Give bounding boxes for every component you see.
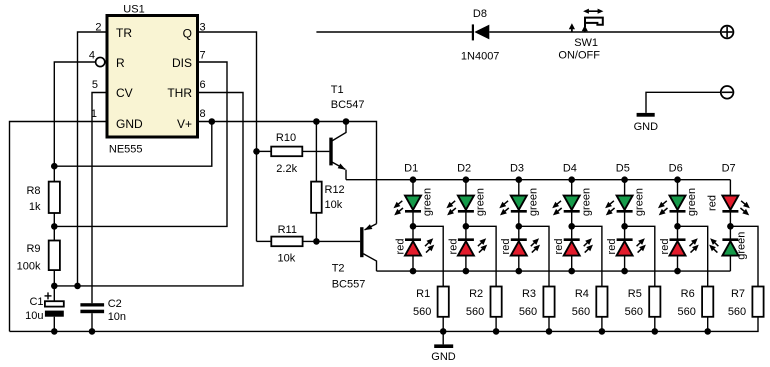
- wire rail to D5 top LED: [624, 180, 626, 196]
- svg-text:2.2k: 2.2k: [276, 163, 297, 175]
- svg-text:560: 560: [678, 306, 696, 318]
- LED D4 bottom red triangle: [564, 241, 580, 255]
- resistor R8 body: [49, 182, 60, 213]
- svg-text:R12: R12: [325, 184, 345, 196]
- wire pin1 GND left and down to ground rail: [10, 122, 108, 332]
- LED D4 top cathode bar: [564, 210, 580, 213]
- LED D6 bottom cathode bar: [670, 238, 686, 241]
- wire D3 top LED to middle node: [518, 211, 520, 239]
- svg-text:T1: T1: [331, 84, 344, 96]
- LED D5 bottom red triangle: [617, 241, 633, 255]
- wire rail to D4 top LED: [571, 180, 573, 196]
- capacitor C2 top plate: [80, 303, 104, 306]
- LED D5 top green triangle: [617, 196, 633, 210]
- wire D1 bottom LED to red rail: [412, 256, 414, 272]
- LED D1 top cathode bar: [405, 210, 421, 213]
- svg-text:R6: R6: [681, 288, 695, 300]
- LED D7 top red triangle: [722, 196, 738, 210]
- svg-text:1k: 1k: [29, 201, 41, 213]
- wire pin5 CV left and down to C2: [92, 93, 107, 304]
- svg-text:green: green: [633, 188, 645, 216]
- wire D3 middle node to resistor R3: [519, 226, 549, 286]
- svg-text:red: red: [394, 239, 406, 255]
- wire R9 to C1: [53, 270, 55, 301]
- resistor R2 body: [491, 287, 502, 317]
- wire D6 bottom LED to red rail: [677, 256, 679, 272]
- svg-text:US1: US1: [123, 3, 144, 15]
- wire rail to D2 top LED: [465, 180, 467, 196]
- wire V+ branch down-left to R8 top: [54, 122, 212, 167]
- wire D5 bottom LED to red rail: [624, 256, 626, 272]
- LED D3 bottom cathode bar: [511, 238, 527, 241]
- wire D6 middle node to resistor R6: [678, 226, 708, 286]
- resistor R1 body: [438, 287, 449, 317]
- svg-text:T2: T2: [332, 263, 345, 275]
- emission arrows D5 bottom LED: [635, 236, 647, 248]
- capacitor C1 bottom plate: [45, 311, 64, 317]
- resistor R4 body: [596, 287, 607, 317]
- LED D7 bottom green triangle: [722, 241, 738, 255]
- svg-text:green: green: [686, 188, 698, 216]
- resistor R10 body: [271, 147, 302, 157]
- diode D8 wire from V+ corner: [316, 31, 473, 33]
- ground symbol bottom GND bar: [434, 344, 453, 348]
- LED D6 top cathode bar: [670, 210, 686, 213]
- wire R10 to T1 base: [302, 150, 329, 152]
- svg-text:green: green: [422, 188, 434, 216]
- wire D5 middle node to resistor R5: [625, 226, 655, 286]
- emission arrows D2 top LED: [445, 199, 458, 211]
- svg-text:6: 6: [200, 79, 206, 91]
- wire pin4 R left and down to V+ node: [54, 62, 95, 166]
- wire ground-rail tap to GND symbol: [442, 331, 444, 344]
- capacitor C1 plus sign: [45, 295, 52, 297]
- svg-text:10n: 10n: [108, 311, 126, 323]
- ground symbol right GND bar: [637, 113, 655, 117]
- plus supply terminal: [721, 26, 734, 39]
- emission arrows D1 top LED: [392, 199, 405, 211]
- svg-text:green: green: [736, 232, 748, 260]
- wire R12 to base node of T2: [315, 213, 317, 242]
- svg-text:R: R: [116, 56, 125, 70]
- resistor R3 body: [543, 287, 554, 317]
- wire D7 bottom LED to red rail: [729, 256, 731, 272]
- resistor R11 body: [271, 237, 302, 247]
- LED D2 top green triangle: [458, 196, 474, 210]
- emission arrows D2 bottom LED: [476, 236, 488, 248]
- transistor T1 BC547 base bar: [329, 138, 332, 166]
- LED D6 bottom red triangle: [670, 241, 686, 255]
- svg-text:green: green: [528, 188, 540, 216]
- wire pin3 Q right and down to R10/R11: [198, 32, 257, 241]
- capacitor C1 polarized top plate: [45, 301, 64, 306]
- wire pin8 V+ rail to T2 emitter: [198, 122, 377, 224]
- red anode rail from T2 collector: [377, 270, 731, 272]
- wire R6 to ground rail: [707, 317, 709, 332]
- svg-text:V+: V+: [177, 117, 192, 131]
- svg-text:GND: GND: [116, 117, 143, 131]
- wire C2 to ground rail: [91, 313, 93, 331]
- wire pin6 THR right, down and left to R9/C1 node: [54, 93, 243, 286]
- wire D3 bottom LED to red rail: [518, 256, 520, 272]
- emission arrows D4 bottom LED: [582, 236, 594, 248]
- resistor R7 body: [752, 287, 763, 317]
- minus supply terminal: [721, 86, 734, 99]
- emission arrows D7 bottom LED: [708, 236, 720, 248]
- svg-text:Q: Q: [183, 26, 192, 40]
- svg-text:R4: R4: [575, 288, 589, 300]
- LED D5 top cathode bar: [617, 210, 633, 213]
- wire D7 top LED to middle node: [729, 211, 731, 239]
- svg-text:R2: R2: [469, 288, 483, 300]
- svg-text:R8: R8: [26, 185, 40, 197]
- LED D3 top cathode bar: [511, 210, 527, 213]
- resistor R9 body: [49, 241, 60, 271]
- svg-text:560: 560: [728, 306, 746, 318]
- svg-text:R1: R1: [416, 288, 430, 300]
- switch SW1 right contact arrow: [584, 30, 586, 33]
- svg-text:5: 5: [92, 79, 98, 91]
- svg-text:560: 560: [466, 306, 484, 318]
- wire rail to D6 top LED: [677, 180, 679, 196]
- LED D1 bottom cathode bar: [405, 238, 421, 241]
- emission arrows D7 top LED: [739, 199, 752, 211]
- svg-text:THR: THR: [167, 86, 192, 100]
- wire rail to D7 top LED: [729, 180, 731, 196]
- wire D5 top LED to middle node: [624, 211, 626, 239]
- svg-text:TR: TR: [116, 26, 132, 40]
- svg-text:10k: 10k: [325, 199, 343, 211]
- emission arrows D3 bottom LED: [529, 236, 541, 248]
- transistor T2 emitter lead with arrow to bar: [365, 224, 377, 230]
- svg-text:GND: GND: [634, 121, 659, 133]
- green anode rail from T1 emitter: [346, 179, 730, 181]
- wire D7 middle node to resistor R7: [730, 226, 758, 286]
- wire D2 bottom LED to red rail: [465, 256, 467, 272]
- wire D2 top LED to middle node: [465, 211, 467, 239]
- svg-text:560: 560: [413, 306, 431, 318]
- switch SW1 slider bracket: [585, 18, 603, 27]
- LED D2 bottom cathode bar: [458, 238, 474, 241]
- wire R4 to ground rail: [601, 317, 603, 332]
- ground rail along bottom: [10, 317, 759, 332]
- emission arrows D3 top LED: [497, 199, 510, 211]
- transistor T1 emitter lead with arrow: [331, 162, 345, 170]
- wire D1 top LED to middle node: [412, 211, 414, 239]
- svg-text:GND: GND: [431, 351, 456, 363]
- svg-text:10u: 10u: [25, 310, 43, 322]
- svg-text:green: green: [475, 188, 487, 216]
- switch SW1 slide actuator double arrow: [583, 9, 603, 14]
- resistor R6 body: [702, 287, 713, 317]
- wire rail to D1 top LED: [412, 180, 414, 196]
- svg-text:red: red: [659, 239, 671, 255]
- LED D7 top cathode bar: [722, 210, 738, 213]
- LED D6 top green triangle: [670, 196, 686, 210]
- svg-text:R10: R10: [276, 132, 296, 144]
- wire D1 middle node to resistor R1: [413, 226, 443, 286]
- svg-text:C1: C1: [29, 296, 43, 308]
- svg-text:560: 560: [625, 306, 643, 318]
- wire V+ to R12: [315, 122, 317, 182]
- wire R1 to ground rail: [442, 317, 444, 332]
- svg-text:red: red: [707, 195, 719, 211]
- svg-text:DIS: DIS: [172, 56, 192, 70]
- svg-text:D6: D6: [669, 162, 683, 174]
- transistor T2 BC557 base bar: [360, 227, 363, 257]
- svg-text:red: red: [500, 239, 512, 255]
- svg-text:D2: D2: [457, 162, 471, 174]
- svg-text:R9: R9: [26, 243, 40, 255]
- LED D3 top green triangle: [511, 196, 527, 210]
- wire R2 to ground rail: [495, 317, 497, 332]
- wire D4 bottom LED to red rail: [571, 256, 573, 272]
- svg-text:R7: R7: [731, 288, 745, 300]
- svg-text:red: red: [606, 239, 618, 255]
- svg-text:560: 560: [572, 306, 590, 318]
- wire R5 to ground rail: [654, 317, 656, 332]
- LED D4 bottom cathode bar: [564, 238, 580, 241]
- LED D4 top green triangle: [564, 196, 580, 210]
- LED D7 bottom cathode bar: [722, 238, 738, 241]
- diode D8 1N4007 symbol: [472, 24, 474, 40]
- wire D4 top LED to middle node: [571, 211, 573, 239]
- svg-text:green: green: [580, 188, 592, 216]
- svg-text:SW1: SW1: [574, 37, 598, 49]
- svg-text:R3: R3: [522, 288, 536, 300]
- wire D6 top LED to middle node: [677, 211, 679, 239]
- wire R8 to R9: [53, 213, 55, 241]
- inversion bubble on pin 4 R input: [96, 57, 105, 66]
- wire rail to D3 top LED: [518, 180, 520, 196]
- svg-text:BC557: BC557: [332, 279, 366, 291]
- svg-text:D7: D7: [722, 162, 736, 174]
- svg-text:D8: D8: [473, 8, 487, 20]
- LED D3 bottom red triangle: [511, 241, 527, 255]
- svg-text:8: 8: [200, 108, 206, 120]
- svg-text:10k: 10k: [278, 252, 296, 264]
- wire pin7 DIS right, down and left to R8/R9 junction: [54, 62, 227, 226]
- wire C1 to ground rail: [53, 317, 55, 332]
- transistor T2 collector lead: [363, 254, 376, 271]
- wire minus terminal to GND symbol: [646, 92, 721, 113]
- wire V+ node to R8: [53, 166, 55, 181]
- wire Q node to R10: [257, 150, 272, 152]
- wire D8 to plus terminal through SW1: [489, 31, 720, 33]
- transistor T1 collector lead: [331, 122, 346, 142]
- LED D5 bottom cathode bar: [617, 238, 633, 241]
- capacitor C2 bottom plate: [80, 310, 104, 314]
- wire R11 to T2 base: [303, 240, 361, 242]
- wire R3 to ground rail: [548, 317, 550, 332]
- svg-text:D4: D4: [563, 162, 577, 174]
- emission arrows D5 top LED: [603, 199, 616, 211]
- svg-text:BC547: BC547: [331, 99, 365, 111]
- emission arrows D1 bottom LED: [423, 236, 435, 248]
- svg-text:CV: CV: [116, 86, 133, 100]
- svg-text:560: 560: [519, 306, 537, 318]
- svg-text:red: red: [553, 239, 565, 255]
- svg-text:red: red: [447, 239, 459, 255]
- svg-text:D3: D3: [510, 162, 524, 174]
- wire pin2 TR left and down to C1 node: [78, 32, 108, 286]
- svg-text:ON/OFF: ON/OFF: [558, 50, 600, 62]
- svg-text:R5: R5: [628, 288, 642, 300]
- wire Q line to R11: [257, 240, 272, 242]
- wire D2 middle node to resistor R2: [466, 226, 496, 286]
- svg-text:1N4007: 1N4007: [461, 51, 500, 63]
- svg-text:R11: R11: [278, 224, 297, 236]
- resistor R5 body: [649, 287, 660, 317]
- LED D1 bottom red triangle: [405, 241, 421, 255]
- svg-text:NE555: NE555: [109, 144, 143, 156]
- svg-text:C2: C2: [108, 298, 122, 310]
- svg-text:D5: D5: [616, 162, 630, 174]
- switch SW1 left contact arrow: [571, 28, 573, 33]
- LED D2 bottom red triangle: [458, 241, 474, 255]
- resistor R12 body: [311, 182, 322, 213]
- LED D1 top green triangle: [405, 196, 421, 210]
- LED D2 top cathode bar: [458, 210, 474, 213]
- IC US1 NE555 timer body: [107, 16, 198, 138]
- emission arrows D6 bottom LED: [687, 236, 699, 248]
- svg-text:7: 7: [200, 49, 206, 61]
- emission arrows D4 top LED: [550, 199, 563, 211]
- wire D4 middle node to resistor R4: [572, 226, 602, 286]
- emission arrows D6 top LED: [656, 199, 669, 211]
- svg-text:D1: D1: [404, 162, 418, 174]
- svg-text:4: 4: [89, 49, 95, 61]
- svg-text:100k: 100k: [17, 261, 41, 273]
